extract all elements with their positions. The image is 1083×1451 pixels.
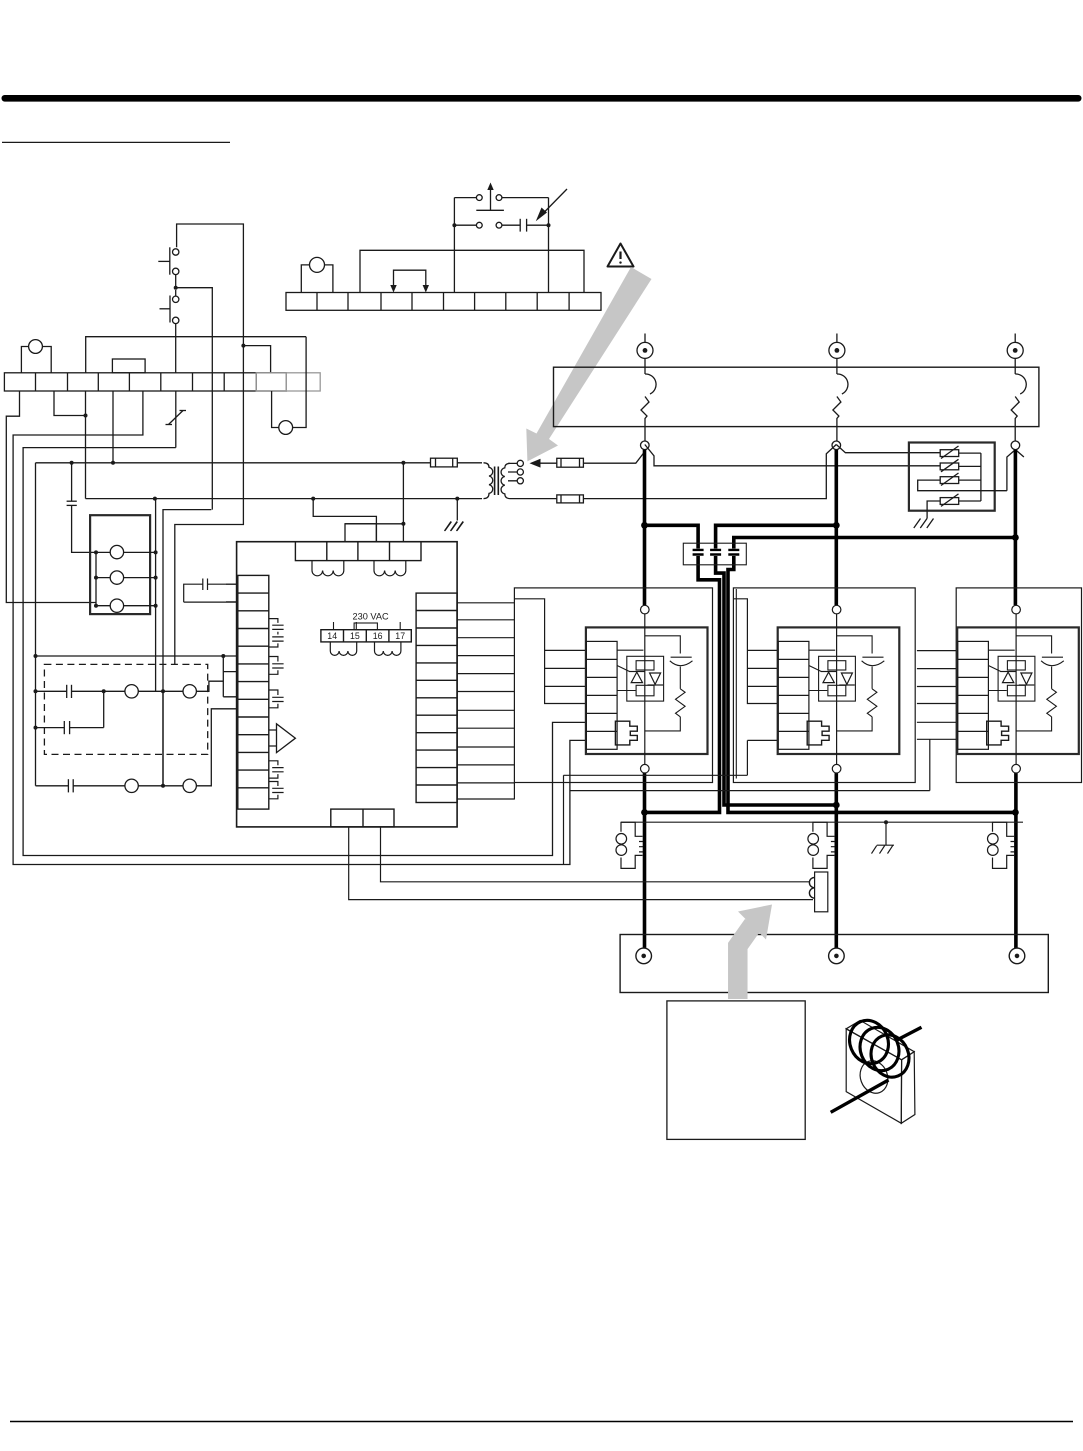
arrowhead at secondary [530, 459, 557, 468]
CT link wire [621, 821, 1023, 823]
node J19 [154, 576, 158, 580]
breaker box CB1 [554, 367, 1039, 426]
thick phase conductors [645, 450, 1016, 948]
footer rule [10, 1421, 1073, 1423]
SCR module 2 [778, 605, 900, 773]
supply stud L2 [829, 334, 845, 359]
node J23 [34, 689, 38, 693]
ground G1 [445, 499, 464, 531]
relay K1 contacts [96, 545, 156, 612]
ground G2 [914, 519, 934, 529]
feeder module 3 [917, 651, 958, 740]
node J24 [102, 689, 106, 693]
varistor RV1 [940, 446, 981, 459]
ground G4 near PCB top [445, 522, 464, 531]
svg-text:14: 14 [327, 631, 337, 641]
supply stud L1 [637, 334, 653, 359]
supply stud L3 [1007, 334, 1023, 359]
node J2 [241, 344, 245, 348]
header bar [2, 95, 1082, 102]
feeder module 2 [733, 599, 778, 704]
driver box 3 [956, 588, 1081, 783]
wire J12 to PCB top [313, 499, 376, 542]
wire pot long control run [23, 448, 587, 856]
wire TB1 cell4 down [112, 391, 114, 463]
capacitor C8 plates [728, 550, 739, 555]
node P3 [1012, 534, 1019, 541]
wire L1 to MOV V2 [645, 445, 940, 466]
MOV block [909, 443, 995, 511]
PCB left tab column [238, 575, 269, 809]
node J17 [94, 604, 98, 608]
MOV right bus [980, 453, 982, 501]
breaker pole 1 [641, 358, 656, 441]
node P1 [641, 522, 648, 529]
coil W3 under 14-15 [330, 642, 356, 656]
pointer arrow to S3 [536, 189, 567, 221]
terminal strip 14-17 [321, 630, 411, 642]
node J1 [174, 286, 178, 290]
phase L1 lower [643, 773, 647, 948]
switch S2 [160, 290, 179, 373]
wire TB1 J7 route [163, 510, 211, 786]
transformer T1 primary [484, 463, 493, 499]
potentiometer R1 [166, 391, 187, 448]
svg-text:16: 16 [373, 631, 383, 641]
snubber feed L1 [645, 525, 699, 548]
wire crossing strip B from J2 down [175, 346, 244, 665]
gate wire module 2 lower [564, 740, 779, 864]
node J13 [455, 497, 459, 501]
terminal strip TB2 (upper middle) [286, 293, 601, 311]
node J18 [154, 550, 158, 554]
snubber feed L2 [716, 525, 837, 548]
fuse F1 [431, 458, 458, 467]
cap C13 inside PCB [269, 761, 284, 778]
output stud T2 [829, 948, 845, 964]
capacitor C1 [67, 463, 96, 553]
output stud T3 [1009, 948, 1025, 964]
capacitor C3 [36, 691, 104, 734]
coil W2 under top tabs [374, 561, 406, 576]
node J4 [547, 223, 551, 227]
node J15 [94, 550, 98, 554]
output stud T1 [636, 948, 652, 964]
CT pictogram coil [843, 1014, 915, 1082]
node J11 [153, 497, 157, 501]
contact circle pair row3 [125, 709, 237, 793]
CT pictogram hole [856, 1057, 893, 1097]
node J21 [34, 654, 38, 658]
wire J2 to strip B [243, 346, 270, 373]
PCB left outer stubs [226, 584, 237, 602]
warning triangle [608, 244, 634, 267]
svg-text:17: 17 [395, 631, 405, 641]
node J22 [221, 654, 225, 658]
CT2 secondary tail [809, 872, 827, 912]
primary feed wire top [36, 462, 483, 464]
transformer T1 core [495, 467, 499, 496]
coil W4 under 16-17 [375, 642, 401, 656]
PCB right stubs to module area [457, 603, 514, 799]
driver box 1 [514, 588, 712, 783]
node P6 [1012, 809, 1019, 816]
node J26 [34, 726, 38, 730]
varistor RV3 [918, 473, 1007, 491]
snubber return 2 [716, 556, 837, 805]
wire beside bus cluster [735, 589, 737, 779]
switch S1 [158, 247, 179, 287]
varistor RV4 [927, 494, 981, 519]
wire left feed down [35, 463, 37, 786]
wire TB1 cell5 long control run [13, 391, 587, 865]
wire row1-row3 link [162, 691, 164, 786]
phase L2 lower [834, 773, 838, 948]
wire to PCB left tab [36, 655, 237, 657]
snubber feed L3 [734, 538, 1016, 549]
gray arrow up [738, 905, 772, 1000]
breaker pole 2 [833, 358, 848, 441]
node J3 [452, 223, 456, 227]
phase L1 drop [643, 450, 647, 605]
driver box 2 [733, 588, 915, 783]
fuse F3 [557, 458, 584, 467]
node J5 [84, 414, 88, 418]
varistor RV2 [940, 459, 981, 472]
capacitor C9 [502, 219, 549, 232]
PCB bottom wires to CT2 [349, 827, 813, 900]
jumper 15-16 [354, 623, 377, 630]
jumper box on PCB top [345, 524, 376, 542]
CT pictogram wire upper [897, 1027, 922, 1040]
label callout box [667, 1001, 805, 1140]
snubber capacitor block [683, 543, 746, 565]
ground G5 [872, 822, 895, 853]
SCR module 1 [586, 605, 708, 773]
terminal circle T-L3 [1007, 441, 1024, 491]
node J20 [154, 604, 158, 608]
CT pictogram slab front [846, 1029, 901, 1124]
relay arrows on TB2 [390, 270, 429, 292]
cap C14 inside PCB [269, 782, 284, 799]
node J14 [401, 522, 405, 526]
CT pictogram slab top [846, 1020, 914, 1059]
gray arrow to transformer [526, 267, 651, 461]
lamp DS2 [21, 340, 51, 373]
node J10 [401, 461, 405, 465]
wire K1 right bus [155, 499, 157, 692]
phase L2 drop [834, 450, 838, 605]
lamp DS3 below TB1 [272, 337, 307, 435]
snubber return 3 [728, 556, 1015, 812]
driver box 1 edge extension [513, 783, 515, 800]
phase L3 lower [1014, 773, 1018, 948]
node J30 [884, 820, 888, 824]
cap C10 inside PCB [269, 619, 284, 647]
node J27 [161, 784, 165, 788]
capacitor C6 plates [693, 550, 704, 555]
wire TB1 cell2/3 to transformer primary bottom [54, 391, 86, 499]
breaker pole 3 [1011, 358, 1026, 441]
current sensor CT3 [988, 822, 1015, 868]
fuse F2 [557, 495, 584, 503]
pin labels 14 15 16 17 [327, 631, 405, 641]
PCB top tab strip [295, 542, 421, 561]
node J12 [311, 497, 315, 501]
node J8 [70, 461, 74, 465]
current sensor CT2 [808, 822, 835, 868]
capacitor C7 plates [710, 550, 721, 555]
feeder module 1 [514, 599, 586, 704]
terminal strip TB1 gray cells [256, 373, 320, 391]
coil W1 under top tabs [312, 561, 344, 576]
SCR module 3 [957, 605, 1079, 773]
PCB control board box [237, 542, 458, 827]
output bar [620, 935, 1048, 993]
cap C12 inside PCB [269, 690, 284, 708]
wire U over TB2 [360, 250, 584, 292]
wire F2 to L2 terminal [583, 445, 836, 499]
wire right side of S3 down [548, 198, 550, 293]
wire J22 jog [223, 656, 236, 697]
wire J10 to PCB jumper [345, 463, 403, 542]
relay box K1 [90, 515, 150, 614]
wire from S1 area down to TB2 [453, 198, 455, 293]
op-amp U1 [269, 724, 296, 753]
wire from J1 right [176, 288, 213, 510]
terminal circle T-L1 [641, 441, 650, 450]
ticks above 14-17 [334, 622, 401, 630]
node J9 [111, 461, 115, 465]
pushbutton S3 (latch contacts) [454, 183, 548, 229]
PCB right tab column [416, 593, 457, 802]
svg-text:230 VAC: 230 VAC [353, 612, 389, 622]
wire over TB1 [86, 337, 306, 373]
node P5 [833, 802, 840, 809]
cap C11 inside PCB [269, 657, 284, 675]
node J25 [161, 689, 165, 693]
lamp DS1 on TB2 [301, 257, 333, 292]
terminal circle T-L2 [832, 441, 841, 450]
svg-text:15: 15 [350, 631, 360, 641]
capacitor C4 [36, 779, 125, 792]
wire TB1 cell1 to relay box node3 [6, 391, 96, 603]
jumper on TB1 [112, 359, 145, 373]
title underline [2, 141, 230, 143]
primary feed wire bottom [86, 498, 483, 500]
PCB bottom tab strip [331, 809, 394, 827]
wire F3 to L1 terminal [583, 452, 644, 464]
current sensor CT1 [616, 822, 643, 868]
terminal strip TB1 (left) [4, 373, 286, 391]
CT pictogram slab side [901, 1052, 915, 1124]
snubber return 1 [645, 556, 720, 812]
node J16 [94, 576, 98, 580]
wire L2 to MOV V1 [836, 445, 940, 453]
capacitor C5 outside PCB left edge [184, 579, 237, 603]
transformer T1 secondary [501, 460, 557, 498]
contact circle pair row1 [125, 681, 223, 698]
gate wire module 3 lower [570, 739, 930, 790]
CT pictogram wire lower [831, 1080, 889, 1112]
node P4 [641, 809, 648, 816]
wire top-left loop [177, 224, 244, 346]
node P2 [833, 522, 840, 529]
dashed filter box [44, 664, 207, 754]
phase L3 drop [1014, 450, 1018, 605]
capacitor C2 [36, 685, 126, 698]
